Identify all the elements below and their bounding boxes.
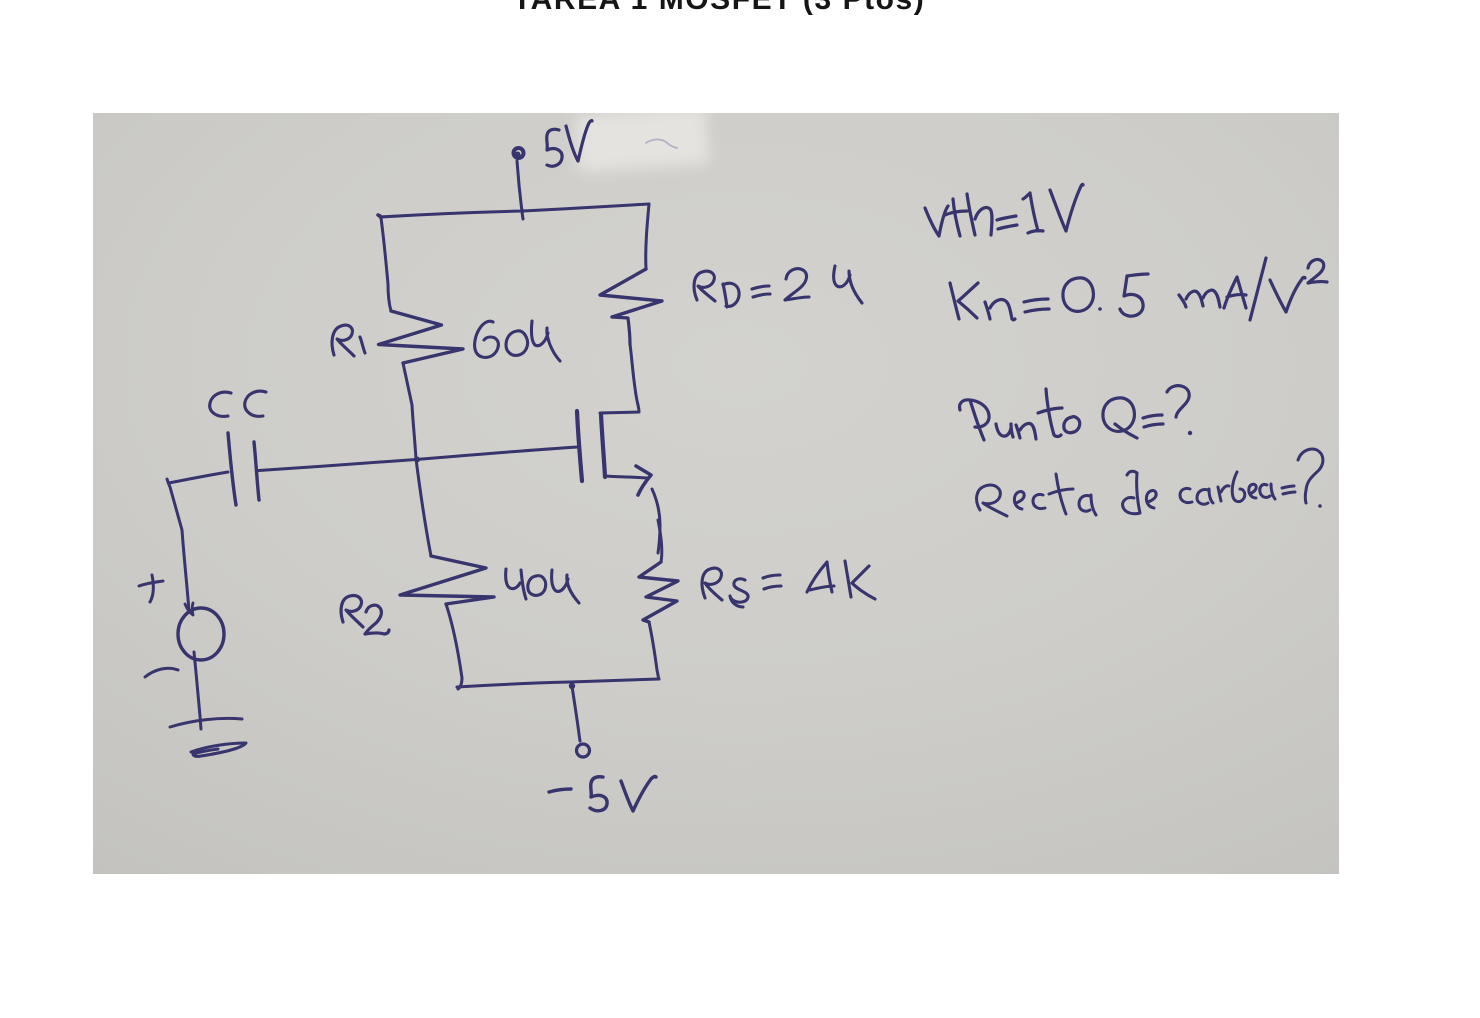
annotation Punto Q =?: [960, 386, 1193, 440]
node +5V terminal: [514, 148, 524, 158]
annotation Recta de carga=?: [977, 449, 1323, 516]
wire left branch down to R1: [381, 218, 391, 311]
wire gate: [259, 447, 578, 471]
label 60k: [475, 321, 560, 361]
wire source down to RS: [652, 489, 660, 553]
junction 5V rail: [520, 209, 524, 213]
wire junction to -5V terminal: [572, 686, 580, 741]
wire source to ground: [194, 652, 201, 729]
capacitor CC plates: [228, 433, 236, 505]
transistor M1 source lead with arrow: [605, 476, 648, 478]
wire bottom rail: [457, 679, 659, 687]
source Vi circle: [178, 608, 224, 660]
label R1: [332, 325, 365, 356]
label RS=1k: [702, 561, 875, 607]
wire hook into source circle: [185, 603, 193, 615]
annotation Kn = 0.5 mA/V2: [950, 258, 1327, 320]
label -5V: [549, 777, 656, 811]
wire RD to drain: [630, 344, 638, 405]
wire input left down: [167, 479, 189, 611]
wire right branch down to RD: [646, 204, 649, 269]
transistor M1 drain lead: [600, 405, 639, 413]
ground: [170, 718, 242, 727]
annotation Vth = 1V: [925, 184, 1083, 236]
resistor RS: [658, 520, 662, 562]
wire R1 to gate node: [403, 363, 416, 459]
resistor R1: [379, 311, 464, 363]
label R2: [341, 596, 389, 634]
wire R2 to bottom rail: [446, 604, 462, 689]
label CC: [210, 391, 266, 416]
junction gate node: [414, 457, 420, 463]
wire junction gate column to R2: [416, 459, 431, 556]
faint pen mark on patch: [646, 139, 677, 148]
resistor R2: [400, 556, 494, 604]
wire input to cap: [169, 472, 228, 483]
junction bottom node: [569, 683, 575, 689]
label RD=2k: [694, 266, 862, 307]
white-out patch near 5V: [575, 106, 709, 172]
label 40k: [506, 569, 579, 603]
wire 5V down to top rail: [517, 161, 523, 219]
transistor M1 gate bar: [577, 411, 582, 481]
resistor RD: [600, 269, 662, 317]
node -5V terminal: [577, 744, 590, 757]
source Vi + label: [139, 575, 163, 602]
wire top rail: [380, 204, 649, 217]
source Vi - label: [145, 668, 178, 677]
photo of hand-drawn schematic: [93, 113, 1339, 874]
label 5V: [547, 121, 592, 167]
transistor M1 channel bar: [601, 414, 605, 477]
